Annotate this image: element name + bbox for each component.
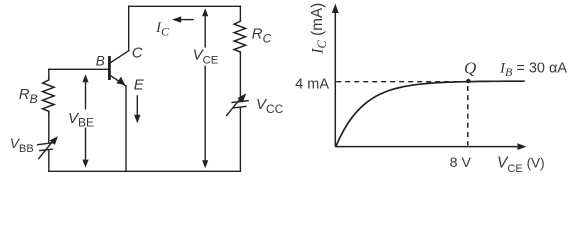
- wire left branch top (base node to RB): [48, 69, 50, 78]
- wire RB to VBB: [48, 113, 50, 143]
- wire RC to VCC: [239, 54, 241, 102]
- svg-text:C: C: [132, 45, 143, 62]
- point Q: [466, 79, 470, 83]
- curve IB = 30 uA: [336, 81, 525, 147]
- wire VCC to bottom: [239, 108, 241, 171]
- svg-text:VBB: VBB: [10, 135, 34, 155]
- measurement arrow VBE: [82, 74, 88, 167]
- svg-text:RC: RC: [252, 25, 272, 45]
- svg-text:E: E: [134, 77, 145, 94]
- wire collector: [128, 6, 130, 50]
- svg-text:4 mA: 4 mA: [295, 76, 329, 92]
- graph y-axis: [332, 4, 339, 147]
- resistor RB: [43, 79, 54, 114]
- svg-text:B: B: [96, 54, 105, 69]
- wire top (collector node to RC): [129, 5, 241, 7]
- svg-text:IC (mA): IC (mA): [309, 3, 329, 55]
- wire VBB to bottom: [48, 150, 50, 172]
- wire emitter: [125, 86, 127, 171]
- svg-text:VCC: VCC: [256, 96, 284, 116]
- wire base: [49, 68, 108, 70]
- label VCE (white box under text): [193, 48, 221, 66]
- label VBE (white box under text): [68, 110, 96, 128]
- source VCC (variable): [227, 93, 249, 115]
- svg-text:Q: Q: [464, 59, 476, 78]
- resistor RC: [234, 20, 245, 54]
- svg-text:IB = 30 αA: IB = 30 αA: [499, 61, 567, 80]
- wire bottom: [49, 170, 241, 172]
- graph x-axis: [335, 143, 526, 150]
- source VBB (variable): [38, 136, 58, 159]
- current arrow IC: [172, 16, 193, 22]
- dashed line 8 V: [467, 86, 469, 146]
- dashed line 4 mA level: [336, 81, 463, 83]
- svg-text:8 V: 8 V: [450, 155, 472, 171]
- svg-text:RB: RB: [19, 86, 38, 106]
- svg-text:VCE (V): VCE (V): [497, 155, 545, 176]
- svg-text:IC: IC: [155, 20, 170, 39]
- measurement arrow VCE: [202, 8, 208, 168]
- transistor Q1 (NPN): [109, 51, 128, 86]
- current arrow IE (emitter current): [134, 96, 140, 123]
- wire right branch top: [239, 6, 241, 20]
